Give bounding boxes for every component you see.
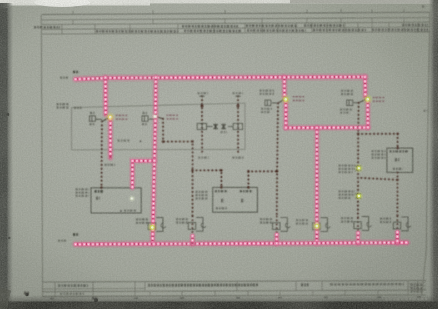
mini table text <box>411 284 424 286</box>
switch GB2 contact <box>354 102 359 104</box>
top table column dividers rows 2-3 <box>62 22 418 34</box>
wire GB1 to plug P3 <box>277 103 278 216</box>
ECU label right <box>240 190 253 192</box>
plug P4 labels <box>296 219 308 221</box>
lead terminal bars <box>199 95 204 97</box>
plug P1 <box>148 218 166 232</box>
relay K2 contact <box>149 118 156 120</box>
top title table lines <box>42 18 430 20</box>
plug P6 <box>393 217 411 231</box>
plug P3 labels <box>260 218 273 220</box>
title block main dividers <box>55 281 408 292</box>
label under GB1 <box>261 108 272 110</box>
label below lead1 <box>198 157 209 159</box>
plug P4 <box>313 218 331 232</box>
junction node dots <box>201 104 204 107</box>
energized stub plug P3 <box>273 235 280 244</box>
energized stub below K1 junction <box>107 119 114 158</box>
label K1 <box>90 112 95 114</box>
plug P1 labels <box>136 218 149 220</box>
JXB box <box>387 148 413 172</box>
energized GB1 lower <box>282 101 289 128</box>
plug P3 <box>273 218 291 232</box>
frame right border <box>422 12 430 295</box>
energized branch to BECU <box>132 161 154 188</box>
label +28V-A top <box>60 76 68 78</box>
corner mark <box>422 5 425 7</box>
wire supply lead 2 <box>237 96 239 154</box>
drawing number <box>330 283 404 285</box>
top table cell texts row 1 <box>34 26 60 29</box>
frame top border <box>42 12 430 14</box>
plug P5 labels <box>341 217 354 219</box>
MIC 1 <box>216 207 227 209</box>
plug P5 <box>354 217 372 231</box>
wire through plug P3 <box>276 216 278 233</box>
wire through plug P5 <box>357 218 359 232</box>
label XS5 below pink stub <box>105 164 116 166</box>
plug P6 labels <box>380 218 391 220</box>
photo border bottom dark band <box>0 295 438 309</box>
wire supply lead 1 <box>201 96 203 154</box>
energized drop to GB1 <box>281 77 288 97</box>
label under GB2 <box>340 108 353 110</box>
wire ECU pin 2 to plug P3 line <box>248 171 276 187</box>
relay K1 coil <box>89 116 95 122</box>
drawing title text <box>148 283 258 286</box>
fold tick marks above top border <box>73 9 404 14</box>
energized bus end drop to GB2 <box>362 77 369 97</box>
wire JXB to plug P6 <box>396 180 398 216</box>
label +27-A lead2 <box>233 92 244 94</box>
switch GB1 coil <box>265 100 271 106</box>
JXB left pin labels <box>372 150 386 152</box>
label +28V-A bottom <box>58 240 66 242</box>
margin mark A <box>424 110 428 112</box>
label under K2 <box>142 123 148 125</box>
title block bottom small cells <box>55 290 408 296</box>
relay K1 contact <box>96 118 103 120</box>
wire GB2 down through connectors to plug P5 <box>357 103 360 218</box>
connector labels 2 <box>339 190 355 192</box>
relay K2 coil <box>142 116 148 122</box>
junction dot relay K2 <box>152 113 158 119</box>
label above GB2 <box>341 90 354 92</box>
label under K1 <box>90 123 96 125</box>
BECU box <box>91 188 141 213</box>
plug P2 labels <box>176 218 189 220</box>
relay unit dashed enclosure box <box>72 103 246 150</box>
title block lines <box>42 281 426 283</box>
box designator 1B5 <box>74 107 82 109</box>
energized drop through plug P4 to bus A2A <box>313 128 320 243</box>
junction LED GB2 <box>363 95 372 104</box>
label below lead2 <box>232 157 243 159</box>
ECU label left <box>215 190 227 192</box>
wire through plug P2 <box>191 216 193 234</box>
ECU left pin labels <box>196 191 209 193</box>
junction dots <box>191 140 194 143</box>
BECU left pin labels <box>76 188 90 190</box>
wire JXB return <box>358 173 397 180</box>
box inner label <box>118 139 130 141</box>
net label A2A <box>73 233 79 236</box>
wire relay K1 output to BECU <box>101 121 103 187</box>
corner mark <box>74 4 77 6</box>
connector LED 1 <box>355 164 364 173</box>
plug P1 LED <box>148 223 157 232</box>
connector X symbols <box>214 124 226 130</box>
connector labels 1 <box>339 165 356 167</box>
photo border right dark edge <box>429 0 438 309</box>
energized bus A3A top <box>76 77 366 79</box>
margin mark B <box>6 286 10 289</box>
JXB label <box>390 150 409 152</box>
connector pair symbol 1 <box>356 166 362 171</box>
ECU box <box>213 187 258 212</box>
energized stub plug P6 <box>394 232 401 243</box>
label +27R-A left <box>57 103 70 105</box>
top table column dividers row1 <box>73 18 404 25</box>
label +27-A lead1 <box>198 92 209 94</box>
net label A3A <box>73 71 79 74</box>
bottom left specks <box>25 293 28 296</box>
connector LED 2 <box>355 192 364 201</box>
energized drop to relay K1 <box>102 78 109 115</box>
marks below frame <box>50 297 421 299</box>
photo border top white strip <box>0 0 438 3</box>
BECU label <box>95 190 104 193</box>
connector pair symbol 2 <box>355 193 361 198</box>
frame left border <box>41 15 42 297</box>
photo border left dark edge <box>0 3 13 309</box>
wire through plug P6 <box>396 216 398 231</box>
junction LED relay K1 <box>106 112 115 121</box>
junction LED GB1 <box>281 95 290 104</box>
wire relay K2 to plug P2 <box>163 119 193 216</box>
left title cells text <box>58 284 88 287</box>
label GB <box>221 131 228 133</box>
energized GB2 lower <box>364 101 371 127</box>
energized bus A2A bottom <box>76 243 408 245</box>
sheet size A4 <box>301 283 309 286</box>
BECU LED <box>129 195 136 202</box>
plug P2 <box>188 217 206 231</box>
wire branch to JXB box <box>358 134 397 148</box>
wire branch to ECU pin 1 <box>193 170 222 187</box>
plug P4 LED <box>312 221 321 230</box>
label K2 <box>143 112 148 114</box>
switch GB2 coil <box>347 100 353 106</box>
energized link GB1-GB2 <box>286 124 368 131</box>
fuse link boxes <box>197 123 242 129</box>
top table cell texts row 2 <box>96 30 178 33</box>
energized stub plug P5 <box>355 233 362 243</box>
switch GB1 contact <box>272 102 278 104</box>
energized drop through plug P1 to bus A2A <box>153 77 156 243</box>
energized stub plug P2 <box>189 236 196 244</box>
revision mini table right <box>408 282 426 284</box>
scan number bottom right <box>385 298 428 300</box>
label above GB1 <box>260 89 275 91</box>
small triangle marker <box>139 140 141 142</box>
